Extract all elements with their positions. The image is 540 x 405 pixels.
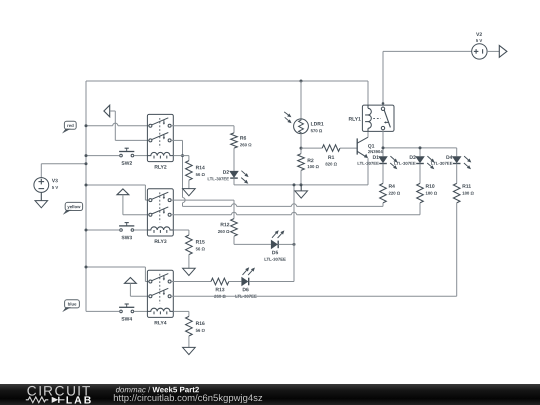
switch SW4 — [86, 304, 147, 321]
resistor R2 — [298, 154, 319, 171]
switch SW3 — [86, 223, 147, 240]
wire R12 to D5 — [234, 236, 271, 244]
wire RLY3 pin2 to R10 bottom — [171, 212, 420, 215]
wire D1 to R4 — [382, 164, 384, 184]
wire R2 to ground rail — [300, 170, 302, 185]
wire V2 rail to RLY1 switch — [382, 51, 385, 107]
wire R4 to RLY2 chain — [183, 203, 384, 207]
node flag red — [62, 121, 76, 133]
wire D5 to ground net — [278, 243, 294, 245]
ground under R16 — [183, 336, 196, 355]
junction bus-SW3 — [85, 229, 88, 232]
CircuitLab logo resistor squiggle — [26, 397, 49, 403]
wire left bus — [85, 81, 87, 311]
junction LED rail D1 — [382, 146, 385, 149]
ground symbol main — [295, 185, 308, 198]
wire Q1 collector to RLY1 — [367, 131, 369, 137]
junction bus-red — [85, 124, 88, 127]
wire bus to RLY3 pin1 — [86, 185, 149, 200]
ground under R15 — [183, 255, 196, 276]
wire D2 to ground rail — [234, 178, 368, 185]
node flag arrow (RLY4 NC) — [125, 278, 149, 297]
LED D1 — [358, 155, 398, 169]
footer bar background — [0, 384, 540, 405]
ground under V3 — [35, 192, 48, 207]
LED D2 — [208, 170, 249, 183]
LED D6 — [235, 267, 256, 297]
wire ground net vertical — [293, 185, 295, 282]
voltage source V2 — [383, 33, 487, 60]
resistor R11 — [453, 183, 473, 203]
wire LED anode rail — [383, 148, 457, 156]
ground under R14 — [183, 180, 196, 196]
junction rail-LDR1 — [300, 80, 303, 83]
resistor R6 — [231, 133, 252, 148]
CircuitLab logo text CIRCUIT — [27, 386, 90, 396]
wire R10 to RLY3 chain — [419, 203, 421, 215]
wire RLY2 coil to R14 — [173, 156, 189, 161]
resistor R1 — [301, 145, 357, 166]
wire red row (bus to RLY2 pin1) — [86, 123, 149, 126]
photoresistor LDR1 — [284, 81, 323, 134]
LED D3 — [394, 155, 434, 169]
wire R6 to D2 — [233, 148, 235, 171]
relay RLY4 — [147, 270, 173, 324]
relay RLY1 — [349, 105, 394, 131]
node flag arrow (RLY2 NC) — [104, 105, 149, 140]
junction ground rail-vertical — [293, 183, 296, 186]
wire RLY3 pin1 to R12 — [171, 200, 234, 219]
wire D4 to R11 — [456, 164, 458, 184]
resistor R16 — [186, 316, 205, 336]
junction ground rail-R2 — [300, 183, 303, 186]
node flag yellow — [63, 202, 83, 214]
wire RLY2 pin1 to R6 — [171, 126, 234, 133]
wire LDR1 to R2 — [300, 134, 302, 154]
node flag blue — [62, 300, 79, 312]
wire D6 to ground net — [249, 281, 294, 283]
resistor R14 — [186, 161, 205, 181]
wire RLY4 coil to R16 — [173, 311, 189, 316]
relay RLY2 — [147, 114, 173, 168]
junction bus-RLY4 — [85, 266, 88, 269]
LED D5 — [265, 230, 286, 261]
wire top +5V rail — [86, 81, 368, 105]
footer bar — [0, 384, 540, 405]
junction LED rail D3 — [419, 146, 422, 149]
junction bus-RLY3 — [85, 184, 88, 187]
relay RLY3 — [147, 189, 173, 243]
wire RLY4 pin1 to R13 — [171, 281, 211, 283]
resistor R10 — [417, 183, 437, 203]
wire Q1 emitter to ground rail — [367, 158, 369, 185]
voltage source V3 — [34, 164, 86, 193]
footer url — [114, 394, 262, 403]
wire R13 to D6 — [229, 281, 242, 283]
resistor R4 — [380, 183, 400, 203]
switch SW2 — [86, 148, 147, 165]
LED D4 — [431, 155, 471, 169]
junction D5-vertical — [293, 243, 296, 246]
junction bus-V3 — [85, 162, 88, 165]
CircuitLab logo diode symbol — [52, 397, 65, 403]
wire bus to RLY4 pin1 — [86, 267, 149, 282]
transistor Q1 — [357, 137, 382, 158]
node flag (V2 output) — [487, 46, 507, 58]
junction bus-SW2 — [85, 154, 88, 157]
resistor R13 — [211, 278, 229, 298]
wire RLY3 coil to R15 — [173, 230, 189, 235]
junction RLY2 coil/pin2 — [181, 154, 184, 157]
wire RLY4 pin2 to R11 bottom — [171, 295, 457, 297]
wire RLY1 switch to LED rail — [382, 130, 384, 157]
resistor R12 — [218, 219, 237, 237]
resistor R15 — [186, 235, 205, 255]
wire D3 to R10 — [419, 164, 421, 184]
wire RLY2 pin2 chain — [171, 140, 185, 206]
footer title dommac / Week5 Part2 — [116, 387, 199, 393]
CircuitLab logo text LAB — [67, 396, 91, 403]
junction LDR-R1 — [300, 147, 303, 150]
wire R11 to RLY4 chain — [456, 203, 458, 296]
node flag arrow (RLY3 NC) — [117, 189, 149, 215]
